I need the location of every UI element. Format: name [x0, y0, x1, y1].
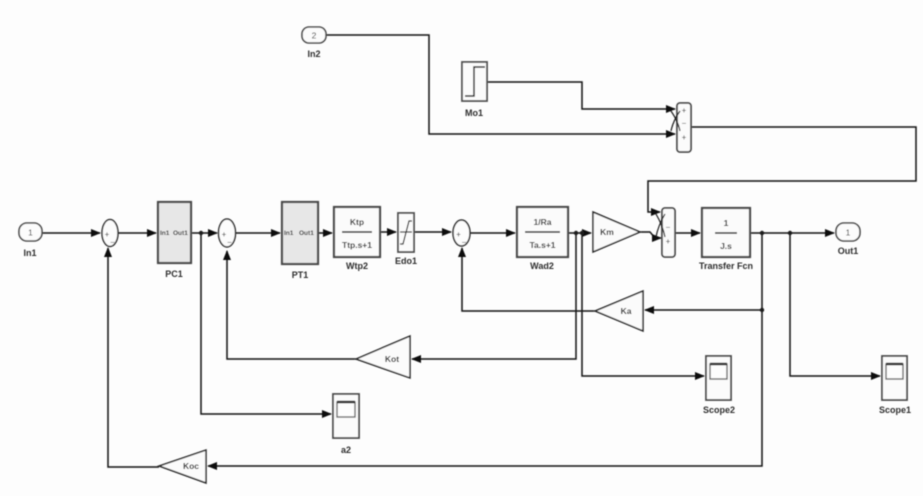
svg-text:−: −	[682, 119, 687, 128]
svg-text:Ta.s+1: Ta.s+1	[529, 240, 555, 250]
svg-text:−: −	[666, 223, 671, 232]
svg-text:Koc: Koc	[183, 461, 199, 471]
svg-text:−: −	[462, 238, 467, 247]
svg-text:+: +	[682, 106, 687, 115]
svg-text:+: +	[105, 230, 110, 239]
svg-text:PT1: PT1	[292, 270, 309, 280]
svg-text:Out1: Out1	[173, 230, 188, 237]
svg-text:In2: In2	[307, 49, 320, 59]
svg-text:Scope2: Scope2	[703, 405, 735, 415]
svg-text:Ttp.s+1: Ttp.s+1	[342, 240, 372, 250]
svg-text:a2: a2	[341, 445, 351, 455]
svg-text:1: 1	[724, 218, 729, 228]
svg-text:2: 2	[312, 31, 317, 41]
svg-text:+: +	[682, 133, 687, 142]
svg-text:1: 1	[846, 228, 851, 238]
svg-text:1: 1	[28, 228, 33, 238]
svg-text:Out1: Out1	[838, 246, 859, 256]
svg-text:Scope1: Scope1	[879, 405, 911, 415]
svg-text:Edo1: Edo1	[395, 256, 417, 266]
svg-text:In1: In1	[284, 230, 294, 237]
svg-text:−: −	[227, 238, 232, 247]
svg-text:1/Ra: 1/Ra	[534, 217, 552, 227]
svg-text:PC1: PC1	[165, 269, 183, 279]
svg-text:Wad2: Wad2	[530, 261, 554, 271]
svg-text:+: +	[456, 230, 461, 239]
svg-text:In1: In1	[23, 248, 36, 258]
svg-text:Km: Km	[600, 227, 614, 237]
svg-text:+: +	[222, 230, 227, 239]
svg-text:−: −	[110, 238, 115, 247]
svg-text:Mo1: Mo1	[465, 108, 483, 118]
svg-text:Out1: Out1	[299, 230, 314, 237]
svg-text:Ktp: Ktp	[350, 217, 364, 227]
svg-text:In1: In1	[160, 230, 170, 237]
svg-text:+: +	[666, 237, 671, 246]
svg-text:Transfer Fcn: Transfer Fcn	[699, 261, 753, 271]
svg-text:Kot: Kot	[385, 354, 399, 364]
svg-text:J.s: J.s	[720, 241, 732, 251]
svg-text:Ka: Ka	[621, 306, 632, 316]
svg-text:Wtp2: Wtp2	[346, 261, 368, 271]
